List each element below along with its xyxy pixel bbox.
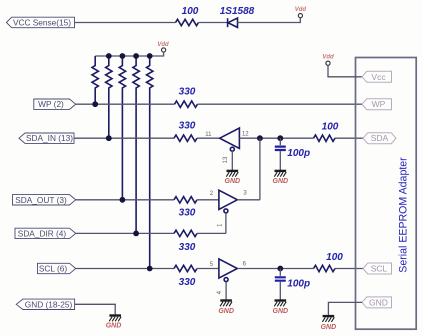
wire SDA_OUT net [76,199,174,201]
resistor 100 (SCL) [314,252,344,272]
svg-text:330: 330 [179,277,196,288]
resistor 330 (SDA_IN) [174,121,197,142]
svg-text:13: 13 [223,156,229,163]
wire resistor to U2 enable corner [197,232,226,234]
svg-text:GND: GND [273,178,289,185]
wire U2 enable down to SDA_DIR net [225,213,227,234]
wire resistor to SCL pin [335,268,364,270]
buffer U3 (points right) [219,259,237,282]
svg-text:SDA_DIR (4): SDA_DIR (4) [18,228,67,238]
junction WP / RP1 [92,101,98,107]
connector WP (2) [34,99,76,109]
wire resistor to buffer U3 input [197,268,219,270]
resistor 330 (SCL) [174,265,197,288]
resistor 330 (SDA_DIR) [174,230,197,253]
svg-text:100: 100 [182,6,199,17]
junction SDA_DIR / RP4 [133,231,139,237]
wire U1 input side SDA net [239,137,313,139]
svg-text:12: 12 [242,132,249,138]
svg-text:GND (18-25): GND (18-25) [25,299,73,309]
ground (U1 enable) [226,171,238,177]
pin WP [362,99,392,110]
connector VCC Sense(15) [6,17,74,28]
wire SDA_IN net [74,137,174,139]
junction on bus bar at RP4 [133,53,139,59]
svg-text:330: 330 [179,87,196,98]
svg-text:SDA_IN (13): SDA_IN (13) [26,133,73,143]
svg-text:Vdd: Vdd [157,42,169,48]
junction SCL / capacitor C2 [277,266,283,272]
wire GND pin to ground [328,302,362,315]
resistor 100 (top) [176,6,199,26]
box Serial EEPROM Adapter [356,58,417,330]
connector SDA_DIR (4) [15,228,76,238]
junction SDA / capacitor C1 [277,135,283,141]
resistor 100 (SDA) [314,122,339,142]
wire resistor to buffer U2 input [197,199,219,201]
junction SDA_OUT / RP3 [120,197,126,203]
junction on bus bar at RP2 [106,53,112,59]
capacitor C1 100p [275,138,310,170]
resistor 330 (SDA_OUT) [174,197,197,219]
diode 1S1588 [220,6,255,27]
wire Vdd to pull-up bus bar [95,52,163,56]
wire U3 output SCL net [237,268,313,270]
svg-text:Vcc: Vcc [371,72,386,82]
connector SCL (6) [38,263,76,273]
junction on bus bar at RP3 [120,53,126,59]
junction SDA_IN / RP2 [106,135,112,141]
junction on bus bar at RP5 [147,53,153,59]
wire Vdd to Vcc pin [328,65,362,77]
svg-text:GND: GND [225,178,241,185]
resistor pull-up RP2 (vertical) [106,56,112,138]
resistor pull-up RP3 (vertical) [119,56,125,200]
connector GND (18-25) [16,299,74,309]
capacitor C2 100p [275,269,310,300]
wire WP resistor to WP pin [198,103,363,105]
wire resistor to diode [199,22,228,24]
resistor 330 (WP) [175,87,198,108]
svg-text:VCC Sense(15): VCC Sense(15) [13,18,71,28]
ground (parallel port GND) [109,316,121,322]
svg-text:Vdd: Vdd [295,7,307,13]
svg-text:330: 330 [179,207,196,218]
pin GND [362,297,392,308]
pin SCL [363,263,392,274]
svg-text:SCL (6): SCL (6) [39,264,68,274]
pin SDA (bidirectional) [363,133,396,144]
wire WP net [76,103,175,105]
svg-text:GND: GND [218,308,234,315]
resistor pull-up RP4 (vertical) [133,56,139,233]
svg-text:100: 100 [322,122,339,133]
svg-text:SDA_OUT (3): SDA_OUT (3) [15,195,67,205]
resistor pull-up RP5 (vertical) [147,56,153,269]
svg-text:GND: GND [106,323,122,330]
power terminal Vdd (top) [295,7,307,18]
junction SCL / RP5 [147,266,153,272]
wire U3 enable to ground [225,282,227,300]
svg-text:1S1588: 1S1588 [220,6,255,17]
svg-text:330: 330 [179,242,196,253]
svg-text:SDA: SDA [371,133,389,143]
svg-text:330: 330 [179,121,196,132]
wire U2 output to riser [237,199,260,201]
pin Vcc [362,71,392,82]
wire GND connector to ground [75,304,116,315]
wire resistor to SDA pin [335,137,364,139]
svg-text:WP: WP [372,99,386,109]
buffer U1 (points left) [220,128,240,151]
wire riser buffer U2 output to SDA net [259,138,261,200]
svg-text:Vdd: Vdd [322,55,334,61]
wire U1 enable to ground [231,151,233,170]
connector SDA_OUT (3) [13,195,76,205]
svg-text:GND: GND [321,324,337,331]
svg-text:WP (2): WP (2) [38,99,64,109]
wire resistor to buffer U1 output [197,137,220,139]
ground (C1) [274,171,286,177]
svg-text:11: 11 [205,132,212,138]
svg-text:100p: 100p [287,279,310,290]
power terminal Vdd (adapter Vcc) [322,55,334,66]
resistor pull-up RP1 (vertical) [92,56,98,104]
svg-text:100: 100 [326,252,343,263]
svg-text:100p: 100p [287,148,310,159]
ground (adapter GND) [322,316,334,322]
wire VCC Sense to resistor 100 [75,22,176,24]
svg-text:SCL: SCL [371,264,388,274]
ground (U3 enable) [220,301,232,307]
connector SDA_IN (13) [19,133,74,143]
junction SDA / buffer U2 output riser [257,135,263,141]
svg-text:Serial EEPROM Adapter: Serial EEPROM Adapter [398,157,410,273]
buffer U2 (points right) [219,190,237,213]
wire SDA_DIR net [76,232,174,234]
svg-text:GND: GND [273,308,289,315]
wire SCL net [76,268,174,270]
svg-text:GND: GND [369,297,388,307]
power terminal Vdd (pull-up network) [157,42,169,52]
ground (C2) [274,301,286,307]
wire diode to Vdd terminal [238,18,301,23]
